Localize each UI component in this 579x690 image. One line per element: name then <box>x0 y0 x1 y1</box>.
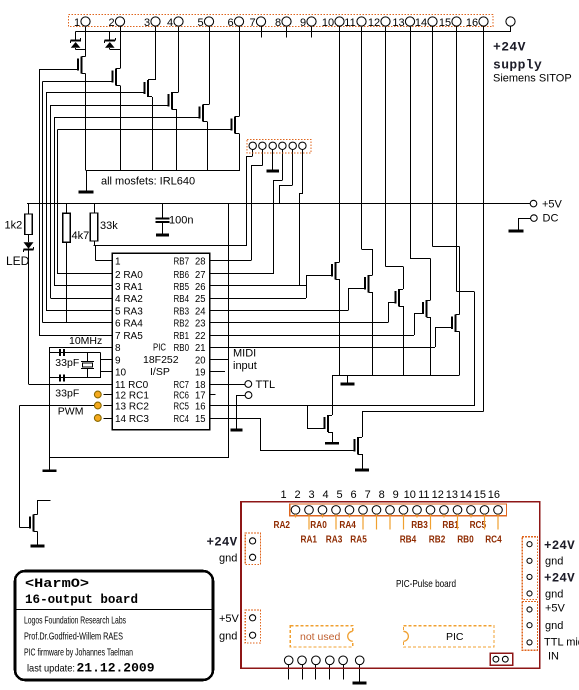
svg-text:LED: LED <box>6 254 30 268</box>
svg-text:gnd: gnd <box>545 620 563 632</box>
svg-text:16: 16 <box>488 489 500 501</box>
svg-text:+5V: +5V <box>219 613 240 625</box>
svg-text:14: 14 <box>415 17 427 29</box>
svg-text:26: 26 <box>195 282 206 293</box>
svg-text:33pF: 33pF <box>55 388 79 400</box>
svg-text:RB1: RB1 <box>174 331 190 342</box>
svg-text:RB3: RB3 <box>174 307 190 318</box>
svg-text:RB2: RB2 <box>429 535 446 546</box>
svg-text:21.12.2009: 21.12.2009 <box>77 662 155 676</box>
svg-text:1: 1 <box>280 489 286 501</box>
svg-text:RB5: RB5 <box>174 282 190 293</box>
svg-text:6: 6 <box>227 17 233 29</box>
svg-text:9: 9 <box>115 355 121 366</box>
svg-text:13: 13 <box>446 489 458 501</box>
svg-text:RC5: RC5 <box>174 402 190 413</box>
svg-text:13 RC2: 13 RC2 <box>115 402 149 413</box>
svg-text:MIDI: MIDI <box>233 348 256 360</box>
svg-text:all mosfets: IRL640: all mosfets: IRL640 <box>101 176 195 188</box>
svg-text:+5V: +5V <box>545 603 566 615</box>
svg-text:gnd: gnd <box>545 589 563 601</box>
svg-text:RC4: RC4 <box>485 535 502 546</box>
svg-text:PIC firmware by Johannes Taelm: PIC firmware by Johannes Taelman <box>24 647 133 659</box>
svg-text:9: 9 <box>393 489 399 501</box>
svg-text:7: 7 <box>249 17 255 29</box>
svg-text:RB4: RB4 <box>400 535 417 546</box>
svg-text:16: 16 <box>466 17 478 29</box>
svg-text:RB2: RB2 <box>174 319 190 330</box>
svg-text:15: 15 <box>474 489 486 501</box>
svg-text:10MHz: 10MHz <box>69 335 102 347</box>
svg-text:18F252: 18F252 <box>143 354 179 366</box>
svg-text:28: 28 <box>195 256 206 267</box>
svg-text:+24V: +24V <box>493 40 526 55</box>
svg-text:TTL midi: TTL midi <box>544 637 579 649</box>
svg-text:+24V: +24V <box>544 539 575 553</box>
svg-text:2 RA0: 2 RA0 <box>115 270 143 281</box>
svg-text:33pF: 33pF <box>55 357 79 369</box>
svg-text:RB7: RB7 <box>174 256 190 267</box>
svg-text:5 RA3: 5 RA3 <box>115 307 143 318</box>
svg-text:PIC: PIC <box>446 631 464 643</box>
svg-text:<HarmO>: <HarmO> <box>25 577 89 591</box>
svg-text:27: 27 <box>195 270 206 281</box>
svg-text:22: 22 <box>195 331 206 342</box>
svg-text:2: 2 <box>294 489 300 501</box>
svg-text:23: 23 <box>195 319 206 330</box>
svg-text:RB3: RB3 <box>411 520 428 531</box>
svg-text:PIC: PIC <box>153 342 166 354</box>
svg-text:3: 3 <box>144 17 150 29</box>
svg-text:16-output board: 16-output board <box>25 593 138 607</box>
svg-text:supply: supply <box>493 58 542 73</box>
svg-text:RB4: RB4 <box>174 294 190 305</box>
svg-text:3 RA1: 3 RA1 <box>115 282 143 293</box>
svg-text:100n: 100n <box>169 215 193 227</box>
svg-text:25: 25 <box>195 294 206 305</box>
svg-text:PWM: PWM <box>58 406 84 418</box>
svg-text:RA0: RA0 <box>310 520 327 531</box>
svg-text:gnd: gnd <box>219 553 237 565</box>
svg-text:RA2: RA2 <box>274 520 291 531</box>
svg-text:5: 5 <box>337 489 343 501</box>
svg-text:5: 5 <box>197 17 203 29</box>
svg-text:RC6: RC6 <box>174 391 190 402</box>
svg-text:11 RC0: 11 RC0 <box>115 380 149 391</box>
svg-text:6: 6 <box>351 489 357 501</box>
svg-text:4: 4 <box>323 489 329 501</box>
svg-text:14 RC3: 14 RC3 <box>115 414 149 425</box>
svg-text:18: 18 <box>195 380 206 391</box>
svg-text:6 RA4: 6 RA4 <box>115 319 143 330</box>
svg-text:2: 2 <box>108 17 114 29</box>
svg-text:8: 8 <box>115 343 121 354</box>
svg-text:4: 4 <box>167 17 173 29</box>
svg-text:33k: 33k <box>100 220 118 232</box>
svg-text:17: 17 <box>195 391 206 402</box>
svg-text:8: 8 <box>379 489 385 501</box>
svg-text:16: 16 <box>195 402 206 413</box>
svg-text:19: 19 <box>195 368 206 379</box>
svg-text:Siemens SITOP: Siemens SITOP <box>493 73 572 85</box>
svg-text:I/SP: I/SP <box>150 366 170 378</box>
svg-text:RB1: RB1 <box>442 520 459 531</box>
svg-text:1k2: 1k2 <box>5 220 23 232</box>
svg-text:gnd: gnd <box>545 556 563 568</box>
svg-text:20: 20 <box>195 355 206 366</box>
svg-text:last update:: last update: <box>27 663 75 675</box>
svg-text:12: 12 <box>368 17 380 29</box>
svg-text:8: 8 <box>275 17 281 29</box>
svg-text:gnd: gnd <box>219 631 237 643</box>
svg-text:9: 9 <box>300 17 306 29</box>
svg-text:+5V: +5V <box>542 199 563 211</box>
svg-text:RA5: RA5 <box>350 535 367 546</box>
svg-text:RB6: RB6 <box>174 270 190 281</box>
svg-text:4 RA2: 4 RA2 <box>115 294 143 305</box>
svg-text:4k7: 4k7 <box>72 230 90 242</box>
svg-text:10: 10 <box>115 368 127 379</box>
svg-text:24: 24 <box>195 307 206 318</box>
svg-text:14: 14 <box>460 489 472 501</box>
svg-text:TTL: TTL <box>256 379 276 391</box>
svg-text:+24V: +24V <box>544 571 575 585</box>
svg-text:PIC-Pulse board: PIC-Pulse board <box>396 578 456 590</box>
svg-text:RA1: RA1 <box>301 535 318 546</box>
svg-text:Logos Foundation Research Labs: Logos Foundation Research Labs <box>24 615 126 627</box>
svg-text:IN: IN <box>548 651 559 663</box>
svg-text:21: 21 <box>195 343 206 354</box>
svg-text:11: 11 <box>344 17 355 29</box>
svg-text:7: 7 <box>365 489 371 501</box>
svg-text:13: 13 <box>392 17 404 29</box>
svg-text:+24V: +24V <box>207 536 238 550</box>
svg-text:RC4: RC4 <box>174 414 190 425</box>
svg-text:RB0: RB0 <box>457 535 474 546</box>
svg-text:not used: not used <box>300 631 340 643</box>
svg-text:15: 15 <box>439 17 451 29</box>
svg-text:15: 15 <box>195 414 206 425</box>
svg-text:Prof.Dr.Godfried-Willem RAES: Prof.Dr.Godfried-Willem RAES <box>24 631 123 643</box>
svg-text:11: 11 <box>418 489 429 501</box>
svg-text:input: input <box>233 360 257 372</box>
svg-text:DC: DC <box>543 213 559 225</box>
svg-text:1: 1 <box>115 256 121 267</box>
svg-text:7 RA5: 7 RA5 <box>115 331 143 342</box>
svg-text:RA3: RA3 <box>326 535 343 546</box>
svg-text:10: 10 <box>322 17 334 29</box>
svg-text:RC7: RC7 <box>174 380 190 391</box>
svg-text:3: 3 <box>309 489 315 501</box>
svg-text:RB0: RB0 <box>174 343 190 354</box>
svg-text:12 RC1: 12 RC1 <box>115 391 149 402</box>
svg-text:1: 1 <box>74 17 80 29</box>
svg-text:10: 10 <box>404 489 416 501</box>
svg-text:RA4: RA4 <box>339 520 356 531</box>
svg-text:12: 12 <box>432 489 444 501</box>
